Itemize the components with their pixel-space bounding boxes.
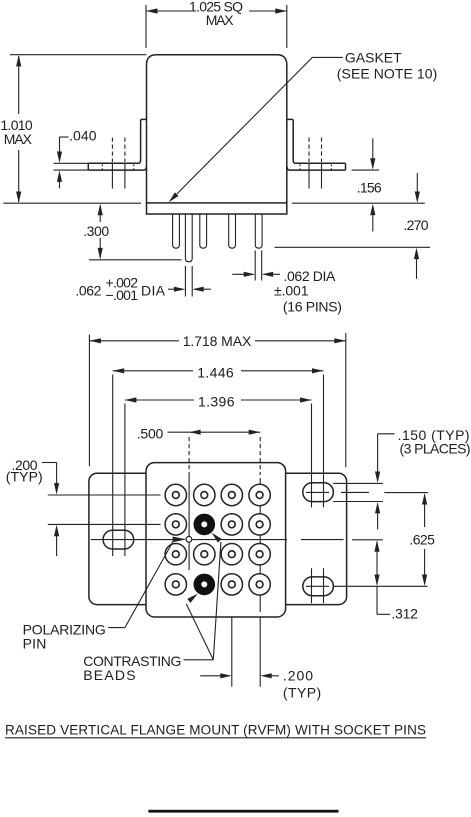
svg-text:MAX: MAX xyxy=(206,12,235,28)
bottom right slot centerline ticks xyxy=(312,568,324,603)
svg-text:.062: .062 xyxy=(75,283,101,299)
dimension 1.010 MAX xyxy=(0,55,146,203)
svg-text:.040: .040 xyxy=(69,128,97,144)
contrasting bead lower (black) xyxy=(194,574,216,596)
svg-text:PIN: PIN xyxy=(23,635,47,651)
left flange bracket xyxy=(88,119,146,170)
contrasting beads label and leaders xyxy=(83,531,221,683)
dimension .500 xyxy=(137,426,260,442)
svg-text:DIA: DIA xyxy=(141,283,166,299)
dimension .625 xyxy=(409,493,435,586)
dimension .040 flange thickness xyxy=(54,128,97,189)
dimension 1.718 MAX xyxy=(89,333,345,467)
mounting plane extension lines xyxy=(3,202,424,204)
top right flange slot xyxy=(303,483,334,502)
left flange slot xyxy=(103,530,134,549)
vertical centerline through socket column 4 xyxy=(259,437,261,612)
svg-text:MAX: MAX xyxy=(4,131,33,147)
polarizing pin circle xyxy=(186,536,192,542)
svg-text:(3 PLACES): (3 PLACES) xyxy=(400,441,471,457)
svg-text:(TYP): (TYP) xyxy=(283,685,321,701)
svg-text:±.001: ±.001 xyxy=(274,282,309,298)
bottom separator bar xyxy=(148,810,338,813)
horizontal centerline of bottom view xyxy=(91,539,383,541)
polarizing pin label and leader xyxy=(23,537,187,652)
dimension .200 (TYP) row spacing xyxy=(6,457,161,556)
svg-text:.500: .500 xyxy=(137,426,164,442)
right flange mounting hole hidden lines xyxy=(300,138,331,189)
dimension 1.396 xyxy=(125,394,312,557)
svg-text:(SEE NOTE 10): (SEE NOTE 10) xyxy=(337,65,438,81)
pin P5 xyxy=(255,215,262,249)
svg-text:1.396: 1.396 xyxy=(198,394,235,410)
pin P3 xyxy=(200,215,207,249)
flange plate (bottom view) xyxy=(89,473,347,604)
dimension .300 polarizing pin length xyxy=(83,204,181,260)
relay body (side view) xyxy=(147,55,287,203)
gasket leader and label xyxy=(167,49,438,204)
dimension .200 (TYP) column spacing xyxy=(200,618,321,701)
polarizing pin P2 (long) xyxy=(185,215,192,262)
svg-text:.625: .625 xyxy=(409,532,435,548)
vertical centerline through polarizing pin column xyxy=(188,437,190,570)
socket pins 4x4 grid xyxy=(165,484,270,595)
svg-text:.270: .270 xyxy=(403,217,428,233)
dimension .062 polarizing pin diameter xyxy=(75,266,211,303)
svg-text:BEADS: BEADS xyxy=(83,667,135,683)
dimension .150 (TYP) (3 PLACES) xyxy=(375,427,471,529)
relay body outline (bottom view) xyxy=(146,463,286,617)
top right slot edge extension lines xyxy=(306,483,428,501)
svg-text:.312: .312 xyxy=(391,606,418,622)
left flange mounting hole hidden lines xyxy=(102,138,133,189)
svg-text:RAISED VERTICAL FLANGE MOUNT (: RAISED VERTICAL FLANGE MOUNT (RVFM) WITH… xyxy=(5,723,426,738)
svg-text:.200: .200 xyxy=(283,668,313,684)
bottom right slot centerline extension xyxy=(306,585,428,587)
svg-text:1.446: 1.446 xyxy=(197,365,234,381)
dimension .270 pin length xyxy=(275,173,431,279)
svg-text:GASKET: GASKET xyxy=(345,49,402,65)
figure title xyxy=(5,723,426,738)
right flange bracket xyxy=(287,119,346,170)
svg-text:.156: .156 xyxy=(357,180,382,196)
svg-text:(TYP): (TYP) xyxy=(6,469,43,485)
dimension .062 DIA 16 pins xyxy=(232,251,342,315)
svg-text:1.718 MAX: 1.718 MAX xyxy=(183,333,252,349)
pin P1 xyxy=(173,215,180,249)
svg-text:−.001: −.001 xyxy=(106,287,139,303)
dimension .156 flange height xyxy=(352,138,382,231)
pin P4 xyxy=(229,215,236,249)
svg-text:(16 PINS): (16 PINS) xyxy=(283,299,342,315)
gasket strip at base of relay body xyxy=(147,203,287,214)
bottom right flange slot xyxy=(303,577,334,596)
dimension .312 xyxy=(374,540,418,621)
svg-text:.300: .300 xyxy=(83,223,109,239)
dimension 1.025 SQ MAX xyxy=(146,0,287,48)
dimension 1.446 xyxy=(113,365,324,557)
contrasting bead upper (black) xyxy=(194,514,216,536)
